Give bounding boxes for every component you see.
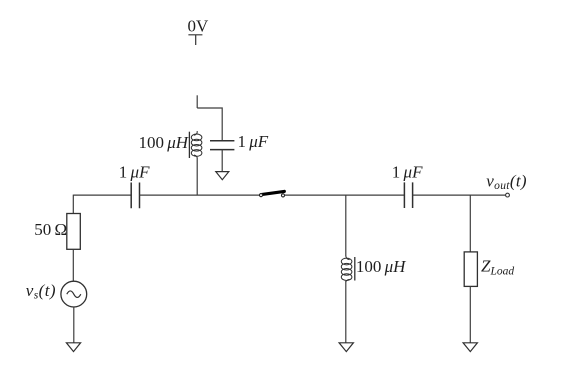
ground (source) <box>66 343 80 352</box>
inductor 100uH (tank) with core bar <box>189 131 202 159</box>
wire load to ground <box>469 286 471 342</box>
svg-text:vout(t): vout(t) <box>486 171 527 192</box>
svg-text:100 μH: 100 μH <box>356 257 407 276</box>
ground (tank) <box>216 172 229 180</box>
svg-text:50 Ω: 50 Ω <box>34 220 67 239</box>
wire resistor to source <box>72 249 74 281</box>
svg-text:100 μH: 100 μH <box>139 133 190 152</box>
wire top stub above tank branch <box>196 95 198 108</box>
ground (shunt) <box>339 343 353 352</box>
svg-text:ZLoad: ZLoad <box>481 257 514 278</box>
wire shunt inductor branch from main <box>345 195 347 256</box>
capacitor C2 1uF (series right) <box>404 182 412 208</box>
wire right capacitor to output terminal <box>413 194 506 196</box>
0V reference terminal <box>188 35 202 45</box>
wire branch to tank capacitor <box>197 108 222 141</box>
label v_s(t) <box>26 281 56 302</box>
source vs sinusoidal <box>61 281 87 307</box>
label v_out(t) <box>486 171 527 192</box>
label 100 uH (shunt) <box>356 257 407 276</box>
label Z_Load <box>481 257 514 278</box>
label 1 uF (series left) <box>119 163 150 182</box>
label 100 uH (tank) <box>139 133 190 152</box>
ground (load) <box>463 343 477 352</box>
svg-text:1 μF: 1 μF <box>238 132 269 151</box>
svg-text:1 μF: 1 μF <box>392 163 423 182</box>
impedance Z_Load <box>464 252 477 287</box>
wire source to ground <box>73 307 75 343</box>
wire shunt inductor to ground <box>345 281 347 343</box>
svg-text:vs(t): vs(t) <box>26 281 56 302</box>
wire switch to right capacitor <box>285 194 405 196</box>
capacitor 1uF (tank) <box>210 141 234 150</box>
wire main left segment <box>73 194 131 196</box>
capacitor C1 1uF (series left) <box>131 183 139 209</box>
wire tank inductor to main node <box>196 159 198 196</box>
inductor 100uH (shunt) with core bar <box>341 256 354 282</box>
terminal v_out open circle <box>506 193 510 197</box>
wire load branch from main <box>469 195 471 252</box>
label 1 uF (series right) <box>392 163 423 182</box>
wire tank capacitor to ground <box>221 150 223 172</box>
node 0V label <box>188 16 210 35</box>
switch SW1 <box>259 191 284 197</box>
wire capacitor to switch <box>140 194 260 196</box>
svg-text:0V: 0V <box>188 16 210 35</box>
resistor 50 Ohm <box>67 214 81 250</box>
wire left branch down to resistor <box>72 195 74 214</box>
label 50 Ohm <box>34 220 67 239</box>
label 1 uF (tank) <box>238 132 269 151</box>
svg-text:1 μF: 1 μF <box>119 163 150 182</box>
